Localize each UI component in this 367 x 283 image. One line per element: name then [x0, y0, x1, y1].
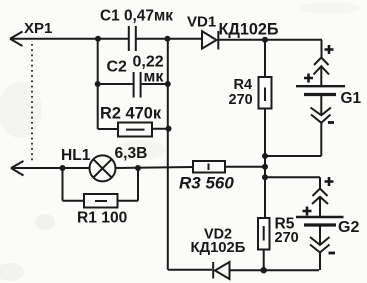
diode VD1	[202, 31, 218, 50]
svg-text:C2: C2	[107, 59, 128, 76]
node: G1 return junction	[262, 153, 268, 159]
connector XP1 label	[24, 20, 52, 37]
label C2 value мк	[144, 69, 165, 86]
node A (top wire / C2,R2 left branch)	[95, 36, 101, 42]
lamp HL1	[90, 155, 116, 181]
resistor R2	[98, 123, 169, 137]
label VD1 type КД102Б	[219, 21, 279, 39]
label C2 value 0,22	[133, 54, 164, 71]
connector chevrons G2 minus	[310, 227, 330, 271]
svg-text:G2: G2	[338, 219, 359, 236]
node: R2 right tap	[166, 126, 172, 132]
connector chevrons G1 plus	[314, 58, 330, 86]
label HL1	[61, 147, 91, 164]
svg-text:R4: R4	[234, 77, 253, 93]
label R4	[234, 77, 253, 93]
wire: lamp to R3	[116, 167, 194, 168]
label - at G2	[329, 252, 336, 255]
node: lamp right / R1 right	[135, 165, 141, 171]
battery G1	[296, 86, 345, 94]
diode VD2	[213, 262, 229, 279]
label R1 value	[77, 210, 128, 227]
node C (VD1 cathode / R4 / G1)	[262, 37, 268, 43]
resistor R1	[63, 168, 139, 208]
svg-text:VD1: VD1	[187, 14, 216, 31]
label R4 value	[229, 92, 253, 108]
connector XP1 dotted link	[31, 44, 33, 161]
node: G2 branch junction	[262, 174, 268, 180]
wire: R4 bottom to mid junctions	[264, 109, 266, 219]
svg-text:R2 470к: R2 470к	[100, 105, 162, 123]
node B (top wire / C2,R2 right branch)	[165, 36, 171, 42]
svg-text:КД102Б: КД102Б	[219, 21, 279, 39]
svg-text:270: 270	[229, 92, 253, 108]
label VD2 type КД102Б	[191, 240, 246, 256]
label R5	[275, 216, 295, 233]
wire: node B vertical down to bottom rail	[167, 39, 169, 270]
svg-text:270: 270	[275, 230, 299, 246]
connector XP1 bottom arrow	[11, 161, 24, 176]
label + at G2 connector	[325, 177, 334, 186]
svg-text:C1 0,47мк: C1 0,47мк	[100, 8, 173, 25]
connector chevrons G2 plus	[312, 177, 328, 216]
node: C2 left tap	[95, 81, 101, 87]
label R2 value	[100, 105, 162, 123]
label R3 value	[179, 174, 234, 193]
wire: node C down to R4	[264, 40, 266, 77]
label G1	[341, 90, 362, 107]
wire: bottom rail right segment	[230, 269, 320, 271]
wire: VD1 cathode to G1 corner	[219, 39, 322, 41]
label - at G1	[328, 121, 334, 124]
wire: G1 return to node C vertical	[265, 155, 321, 157]
svg-text:R1 100: R1 100	[77, 210, 128, 227]
label R5 value	[275, 230, 299, 246]
wire: R3 to node C vertical	[225, 166, 265, 168]
svg-text:КД102Б: КД102Б	[191, 240, 246, 256]
connector chevrons G1 minus	[311, 96, 332, 156]
label C2	[107, 59, 128, 76]
svg-text:G1: G1	[341, 90, 362, 107]
wire: G1 positive lead down	[321, 40, 323, 58]
svg-text:R3 560: R3 560	[179, 174, 234, 193]
resistor R3	[193, 161, 225, 173]
svg-text:ХР1: ХР1	[24, 20, 52, 37]
wire: top row from C1 to VD1	[136, 38, 202, 40]
label VD2	[204, 227, 232, 243]
node: bottom rail / R5 junction	[261, 267, 267, 273]
capacitor C1	[129, 26, 136, 51]
resistor R5	[258, 218, 270, 250]
label + at G1 connector	[325, 45, 334, 54]
svg-text:HL1: HL1	[61, 147, 91, 164]
wire: top row from XP1 to C1	[10, 38, 128, 40]
label + at G1 battery	[304, 74, 313, 83]
label + at G2 battery	[303, 207, 312, 216]
label 6,3В	[115, 145, 148, 162]
label C1 value	[100, 8, 173, 25]
connector XP1 top arrow	[10, 32, 23, 47]
node: C2 right tap	[165, 81, 171, 87]
svg-text:мк: мк	[144, 69, 165, 86]
wire: bottom rail left segment	[168, 269, 212, 271]
node: lamp left / R1 left	[60, 165, 66, 171]
resistor R4	[259, 77, 272, 109]
wire: branch to G2 plus	[265, 176, 320, 178]
label VD1	[187, 14, 216, 31]
battery G2	[296, 217, 344, 225]
node: R3 junction	[262, 164, 268, 170]
wire: R5 bottom to bottom rail	[263, 250, 265, 271]
wire: node A vertical branch	[97, 39, 99, 129]
wire: second row from XP1 to lamp	[11, 167, 90, 169]
capacitor C2	[98, 72, 168, 98]
label G2	[338, 219, 359, 236]
svg-text:6,3В: 6,3В	[115, 145, 148, 162]
